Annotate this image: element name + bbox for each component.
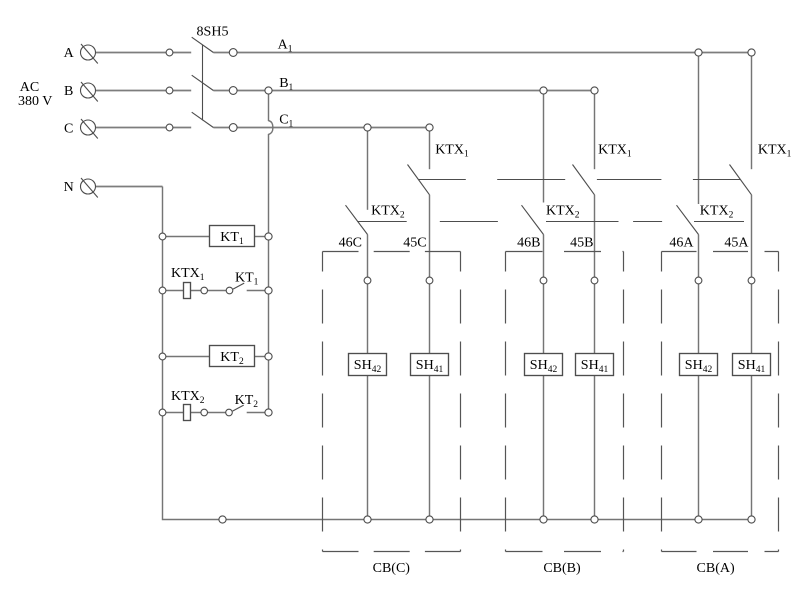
svg-text:A: A	[64, 46, 75, 61]
svg-text:KTX1: KTX1	[171, 266, 205, 283]
svg-text:45B: 45B	[570, 236, 593, 251]
svg-text:KTX2: KTX2	[700, 204, 734, 221]
svg-text:45A: 45A	[724, 236, 749, 251]
svg-text:380 V: 380 V	[18, 94, 52, 109]
svg-text:8SH5: 8SH5	[197, 25, 229, 40]
svg-text:CB(C): CB(C)	[373, 561, 411, 576]
svg-text:46C: 46C	[339, 236, 362, 251]
svg-text:CB(B): CB(B)	[543, 561, 581, 576]
svg-text:AC: AC	[20, 80, 39, 95]
svg-text:KTX2: KTX2	[546, 204, 580, 221]
svg-text:KTX2: KTX2	[171, 389, 205, 406]
svg-text:KTX1: KTX1	[758, 143, 792, 160]
svg-text:KTX1: KTX1	[598, 143, 632, 160]
svg-text:KTX2: KTX2	[371, 204, 405, 221]
svg-text:B: B	[64, 84, 73, 99]
svg-text:KTX1: KTX1	[435, 143, 469, 160]
svg-text:46B: 46B	[517, 236, 540, 251]
svg-text:N: N	[64, 180, 74, 195]
svg-text:45C: 45C	[403, 236, 426, 251]
svg-text:46A: 46A	[669, 236, 694, 251]
svg-text:C: C	[64, 122, 73, 137]
svg-text:CB(A): CB(A)	[697, 561, 735, 576]
